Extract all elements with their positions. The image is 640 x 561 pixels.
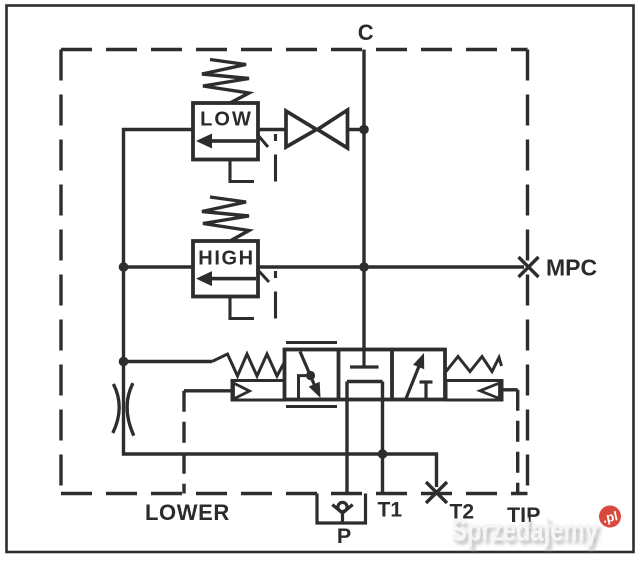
orifice (restrictor) on left bus [113,383,134,436]
wire: LOW outlet to shutoff valve [258,128,286,131]
DCV left spring [212,354,285,376]
svg-text:T1: T1 [378,499,403,522]
wire: T1 line from DCV to port T1 [381,382,384,494]
LOW pilot dashed [230,134,276,182]
plugged port T2 (X) [426,482,447,503]
wire: left pilot drain dashed to boundary [182,391,185,494]
wire: shutoff valve to C bus [348,128,365,131]
HIGH arrow [196,271,212,286]
junction node bus/HIGH [119,262,129,272]
DCV left pilot actuator [232,381,285,401]
manifold boundary (dashed box) [61,50,528,494]
centre position: blocked C port [362,351,365,367]
plugged port MPC (X) [519,257,539,277]
junction node at shutoff/C [359,125,369,135]
junction node bus/spring line [119,357,129,367]
DCV right spring [446,357,502,372]
wire: left bus to DCV spring [124,360,213,363]
svg-text:.pl: .pl [601,508,619,526]
DCV right position arrowhead [413,353,424,369]
svg-text:Sprzedajemy: Sprzedajemy [451,512,598,548]
DCV left position ball [306,371,315,380]
svg-text:HIGH: HIGH [198,248,254,270]
wire: HIGH outlet to MPC [258,265,524,268]
wire: right pilot line solid part [502,388,518,391]
LOW arrow [196,134,212,149]
junction node C/HIGH [359,262,369,272]
junction node T1/tank line [378,449,388,459]
left position: ball path [300,352,316,388]
LOW adjust tick [257,134,268,147]
svg-text:LOW: LOW [200,109,253,131]
check valve at P [317,494,366,524]
relief valve HIGH body [193,241,258,297]
proportional bars on left position [286,341,337,344]
svg-text:P: P [337,524,351,548]
watermark .pl badge [597,503,623,529]
shutoff valve (bowtie) [286,110,348,148]
right position: flow arrow line [406,363,421,399]
DCV left position arrowhead [309,382,321,398]
svg-text:LOWER: LOWER [145,500,230,525]
svg-text:C: C [358,20,374,45]
watermark Sprzedajemy [451,512,601,552]
wire: C bus vertical [362,50,365,350]
svg-text:MPC: MPC [546,255,597,281]
wire: left bus from LOW valve down and tank line to T2 [124,130,437,488]
relief valve LOW body [193,103,258,160]
wire: HIGH inlet from left bus [124,265,194,268]
right position: blocked T port [420,380,433,383]
HIGH adjust tick [257,269,269,282]
wire: P-T1 bridge in DCV centre box [347,380,383,383]
HIGH spring [202,197,249,241]
wire: right pilot drain dashed to boundary [516,390,519,494]
wire: left pilot line solid part [184,389,232,392]
wire: P line from DCV to check valve [345,382,348,494]
DCV right pilot actuator [446,381,502,401]
LOW spring [202,60,249,104]
HIGH pilot dashed [230,271,276,319]
directional valve envelope [285,350,446,400]
